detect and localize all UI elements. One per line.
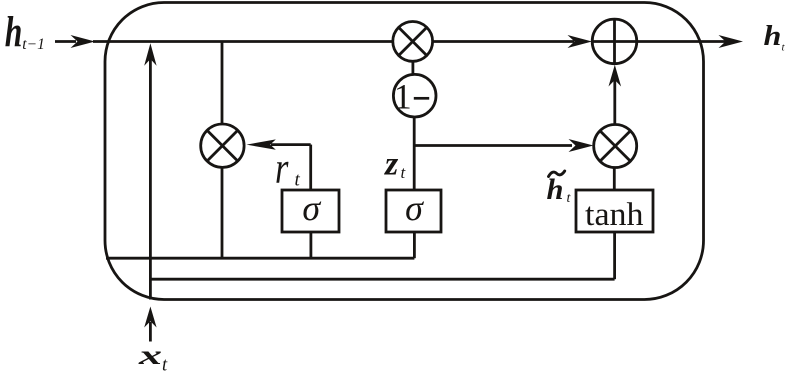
svg-text:h: h: [764, 20, 782, 52]
svg-text:h: h: [5, 9, 23, 56]
svg-text:σ: σ: [302, 188, 321, 228]
svg-text:x: x: [137, 340, 162, 370]
svg-text:tanh: tanh: [585, 197, 644, 233]
svg-text:t−1: t−1: [22, 36, 45, 53]
svg-text:σ: σ: [405, 188, 424, 228]
svg-text:t: t: [295, 170, 301, 191]
svg-text:t: t: [162, 356, 168, 375]
svg-text:1: 1: [394, 77, 412, 117]
svg-text:z: z: [384, 146, 399, 183]
svg-text:h: h: [547, 173, 564, 206]
svg-text:r: r: [275, 144, 289, 193]
